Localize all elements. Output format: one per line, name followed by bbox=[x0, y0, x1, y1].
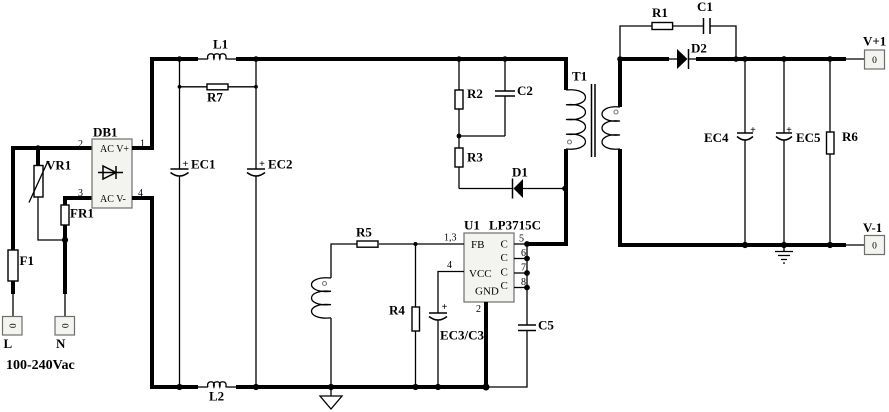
pin 5 bbox=[514, 234, 527, 245]
svg-text:L1: L1 bbox=[213, 37, 228, 52]
node EC1 bottom bbox=[176, 384, 182, 390]
svg-text:AC V+: AC V+ bbox=[100, 144, 129, 155]
capacitor EC4 bbox=[737, 59, 753, 245]
phase dot aux bbox=[323, 282, 327, 286]
pin 6 bbox=[514, 248, 527, 259]
resistor R1 bbox=[652, 23, 704, 30]
resistor R4 bbox=[412, 244, 420, 387]
node R6 top bbox=[827, 56, 833, 62]
wire VCC to EC3 bbox=[438, 272, 464, 314]
svg-text:VR1: VR1 bbox=[46, 158, 71, 173]
capacitor C1 bbox=[704, 18, 737, 59]
wire output top rail bbox=[696, 57, 865, 61]
svg-text:4: 4 bbox=[447, 260, 452, 271]
svg-text:0: 0 bbox=[7, 323, 17, 328]
node EC3 bottom bbox=[435, 384, 441, 390]
wire pin bus bbox=[526, 244, 528, 325]
svg-text:1,3: 1,3 bbox=[444, 233, 457, 244]
resistor R6 bbox=[827, 59, 835, 245]
wire L input to DB1 pin 2 bbox=[13, 148, 92, 251]
resistor R2 bbox=[455, 59, 463, 136]
svg-text:N: N bbox=[56, 336, 66, 351]
svg-text:LP3715C: LP3715C bbox=[489, 218, 541, 233]
node EC1 top bbox=[177, 56, 183, 62]
svg-text:EC2: EC2 bbox=[268, 157, 293, 172]
node pin 8 bbox=[524, 285, 530, 291]
node VR1 top bbox=[35, 145, 41, 151]
varistor VR1 bbox=[29, 148, 65, 240]
node N junction bbox=[62, 237, 68, 243]
svg-text:D1: D1 bbox=[512, 165, 528, 180]
node EC4 bottom bbox=[742, 242, 748, 248]
node R7 right bbox=[254, 85, 258, 89]
svg-text:R3: R3 bbox=[467, 150, 483, 165]
svg-text:AC V-: AC V- bbox=[100, 194, 126, 205]
diode D1 bbox=[513, 179, 566, 199]
resistor R3 bbox=[455, 136, 463, 189]
wire R3 to D1 bbox=[459, 188, 513, 190]
svg-text:C: C bbox=[501, 267, 508, 279]
svg-text:C: C bbox=[501, 239, 508, 251]
phase dot secondary bbox=[614, 110, 618, 114]
wire N terminal bbox=[63, 240, 67, 317]
node pin 5 bbox=[524, 241, 530, 247]
svg-text:+: + bbox=[442, 302, 448, 313]
svg-text:T1: T1 bbox=[572, 69, 587, 84]
capacitor EC3/C3 bbox=[429, 313, 447, 387]
node D2 anode branch bbox=[617, 56, 623, 62]
transformer T1 core bbox=[592, 84, 596, 157]
svg-text:EC4: EC4 bbox=[704, 130, 729, 145]
svg-text:C: C bbox=[501, 280, 508, 292]
svg-text:R5: R5 bbox=[356, 225, 372, 240]
svg-text:V-1: V-1 bbox=[863, 220, 882, 235]
capacitor EC1 bbox=[171, 169, 189, 387]
node R6 bottom bbox=[827, 242, 833, 248]
node pin 6 bbox=[524, 256, 530, 262]
svg-text:+: + bbox=[183, 159, 189, 170]
wire DB1 pin1 to top rail bbox=[132, 59, 198, 148]
wire snubber branch bbox=[620, 26, 652, 59]
svg-text:F1: F1 bbox=[20, 253, 34, 268]
svg-text:0: 0 bbox=[872, 56, 877, 66]
svg-text:R7: R7 bbox=[207, 90, 223, 105]
wire EC2 branch bbox=[255, 59, 257, 169]
wire GND pin bbox=[484, 302, 488, 387]
ground bbox=[320, 387, 342, 409]
earth ground bbox=[775, 245, 793, 263]
svg-text:0: 0 bbox=[872, 242, 877, 252]
node D1 cathode bbox=[562, 186, 568, 192]
node EC2 top bbox=[253, 56, 259, 62]
resistor R5 bbox=[357, 241, 378, 247]
node aux bottom bbox=[328, 384, 334, 390]
terminal V-1 bbox=[865, 236, 885, 255]
svg-text:C1: C1 bbox=[697, 0, 713, 14]
svg-text:U1: U1 bbox=[464, 218, 480, 233]
capacitor C5 bbox=[486, 325, 536, 387]
wire R5 to aux winding bbox=[331, 244, 357, 278]
node EC5 bottom bbox=[781, 242, 787, 248]
wire R2 to C2 bottom bbox=[459, 135, 505, 137]
node EC5 top bbox=[781, 56, 787, 62]
svg-text:R1: R1 bbox=[652, 5, 668, 20]
terminal V+1 bbox=[865, 50, 885, 69]
node R4 bottom bbox=[412, 384, 418, 390]
svg-text:EC3/C3: EC3/C3 bbox=[440, 328, 485, 343]
node R4 top bbox=[414, 242, 418, 246]
svg-text:0: 0 bbox=[59, 323, 69, 328]
aux winding bbox=[312, 278, 332, 387]
node C1 return bbox=[733, 56, 739, 62]
svg-text:C2: C2 bbox=[517, 83, 533, 98]
svg-text:FR1: FR1 bbox=[70, 206, 94, 221]
node GND bbox=[483, 384, 490, 391]
svg-text:C5: C5 bbox=[538, 318, 554, 333]
node R2 bottom bbox=[457, 134, 462, 139]
diode D2 bbox=[669, 49, 696, 69]
node R7 left bbox=[178, 85, 182, 89]
wire top rail bbox=[236, 59, 566, 90]
node R2 top bbox=[456, 56, 462, 62]
phase dot primary bbox=[568, 140, 572, 144]
svg-text:DB1: DB1 bbox=[93, 125, 118, 140]
node pin 7 bbox=[524, 270, 530, 276]
transformer T1 primary winding bbox=[527, 90, 586, 244]
pin 7 bbox=[514, 263, 527, 274]
capacitor EC2 bbox=[247, 169, 265, 387]
capacitor EC5 bbox=[776, 59, 792, 245]
svg-text:L: L bbox=[4, 336, 13, 351]
svg-text:VCC: VCC bbox=[469, 268, 492, 280]
transformer T1 secondary winding bbox=[602, 59, 846, 245]
wire DB1 pin4 to bottom rail bbox=[132, 198, 198, 387]
terminal N bbox=[55, 317, 75, 336]
svg-text:V+1: V+1 bbox=[863, 34, 886, 49]
svg-text:EC1: EC1 bbox=[191, 157, 216, 172]
wire bottom rail bbox=[236, 385, 486, 389]
svg-text:2: 2 bbox=[476, 304, 481, 315]
svg-text:+: + bbox=[750, 125, 756, 136]
node C2 top bbox=[502, 56, 508, 62]
node EC2 bottom bbox=[253, 384, 259, 390]
svg-text:R2: R2 bbox=[467, 86, 483, 101]
svg-text:EC5: EC5 bbox=[796, 130, 821, 145]
bridge rectifier DB1 bbox=[92, 139, 132, 208]
svg-text:GND: GND bbox=[475, 286, 499, 298]
wire FB row bbox=[379, 243, 464, 245]
svg-text:5: 5 bbox=[519, 234, 524, 245]
svg-text:3: 3 bbox=[78, 188, 83, 199]
inductor L2 bbox=[198, 382, 236, 387]
node EC4 top bbox=[742, 56, 748, 62]
wire EC1 branch bbox=[179, 59, 181, 169]
fuse F1 bbox=[8, 250, 18, 317]
svg-text:L2: L2 bbox=[209, 389, 224, 404]
wire output bottom rail to V-1 bbox=[846, 244, 865, 246]
svg-text:+: + bbox=[786, 125, 792, 136]
fusible resistor FR1 bbox=[61, 198, 92, 240]
resistor R7 bbox=[180, 84, 257, 90]
svg-text:100-240Vac: 100-240Vac bbox=[6, 358, 75, 373]
svg-text:D2: D2 bbox=[691, 41, 707, 56]
svg-text:R4: R4 bbox=[389, 303, 405, 318]
terminal L bbox=[3, 317, 23, 336]
svg-text:C: C bbox=[501, 252, 508, 264]
svg-text:R6: R6 bbox=[842, 129, 858, 144]
capacitor C2 bbox=[495, 59, 515, 136]
svg-text:+: + bbox=[259, 159, 265, 170]
inductor L1 bbox=[198, 54, 236, 59]
svg-text:2: 2 bbox=[78, 139, 83, 150]
svg-text:FB: FB bbox=[471, 239, 484, 251]
IC U1 LP3715C bbox=[464, 233, 514, 302]
pin 8 bbox=[514, 277, 527, 288]
